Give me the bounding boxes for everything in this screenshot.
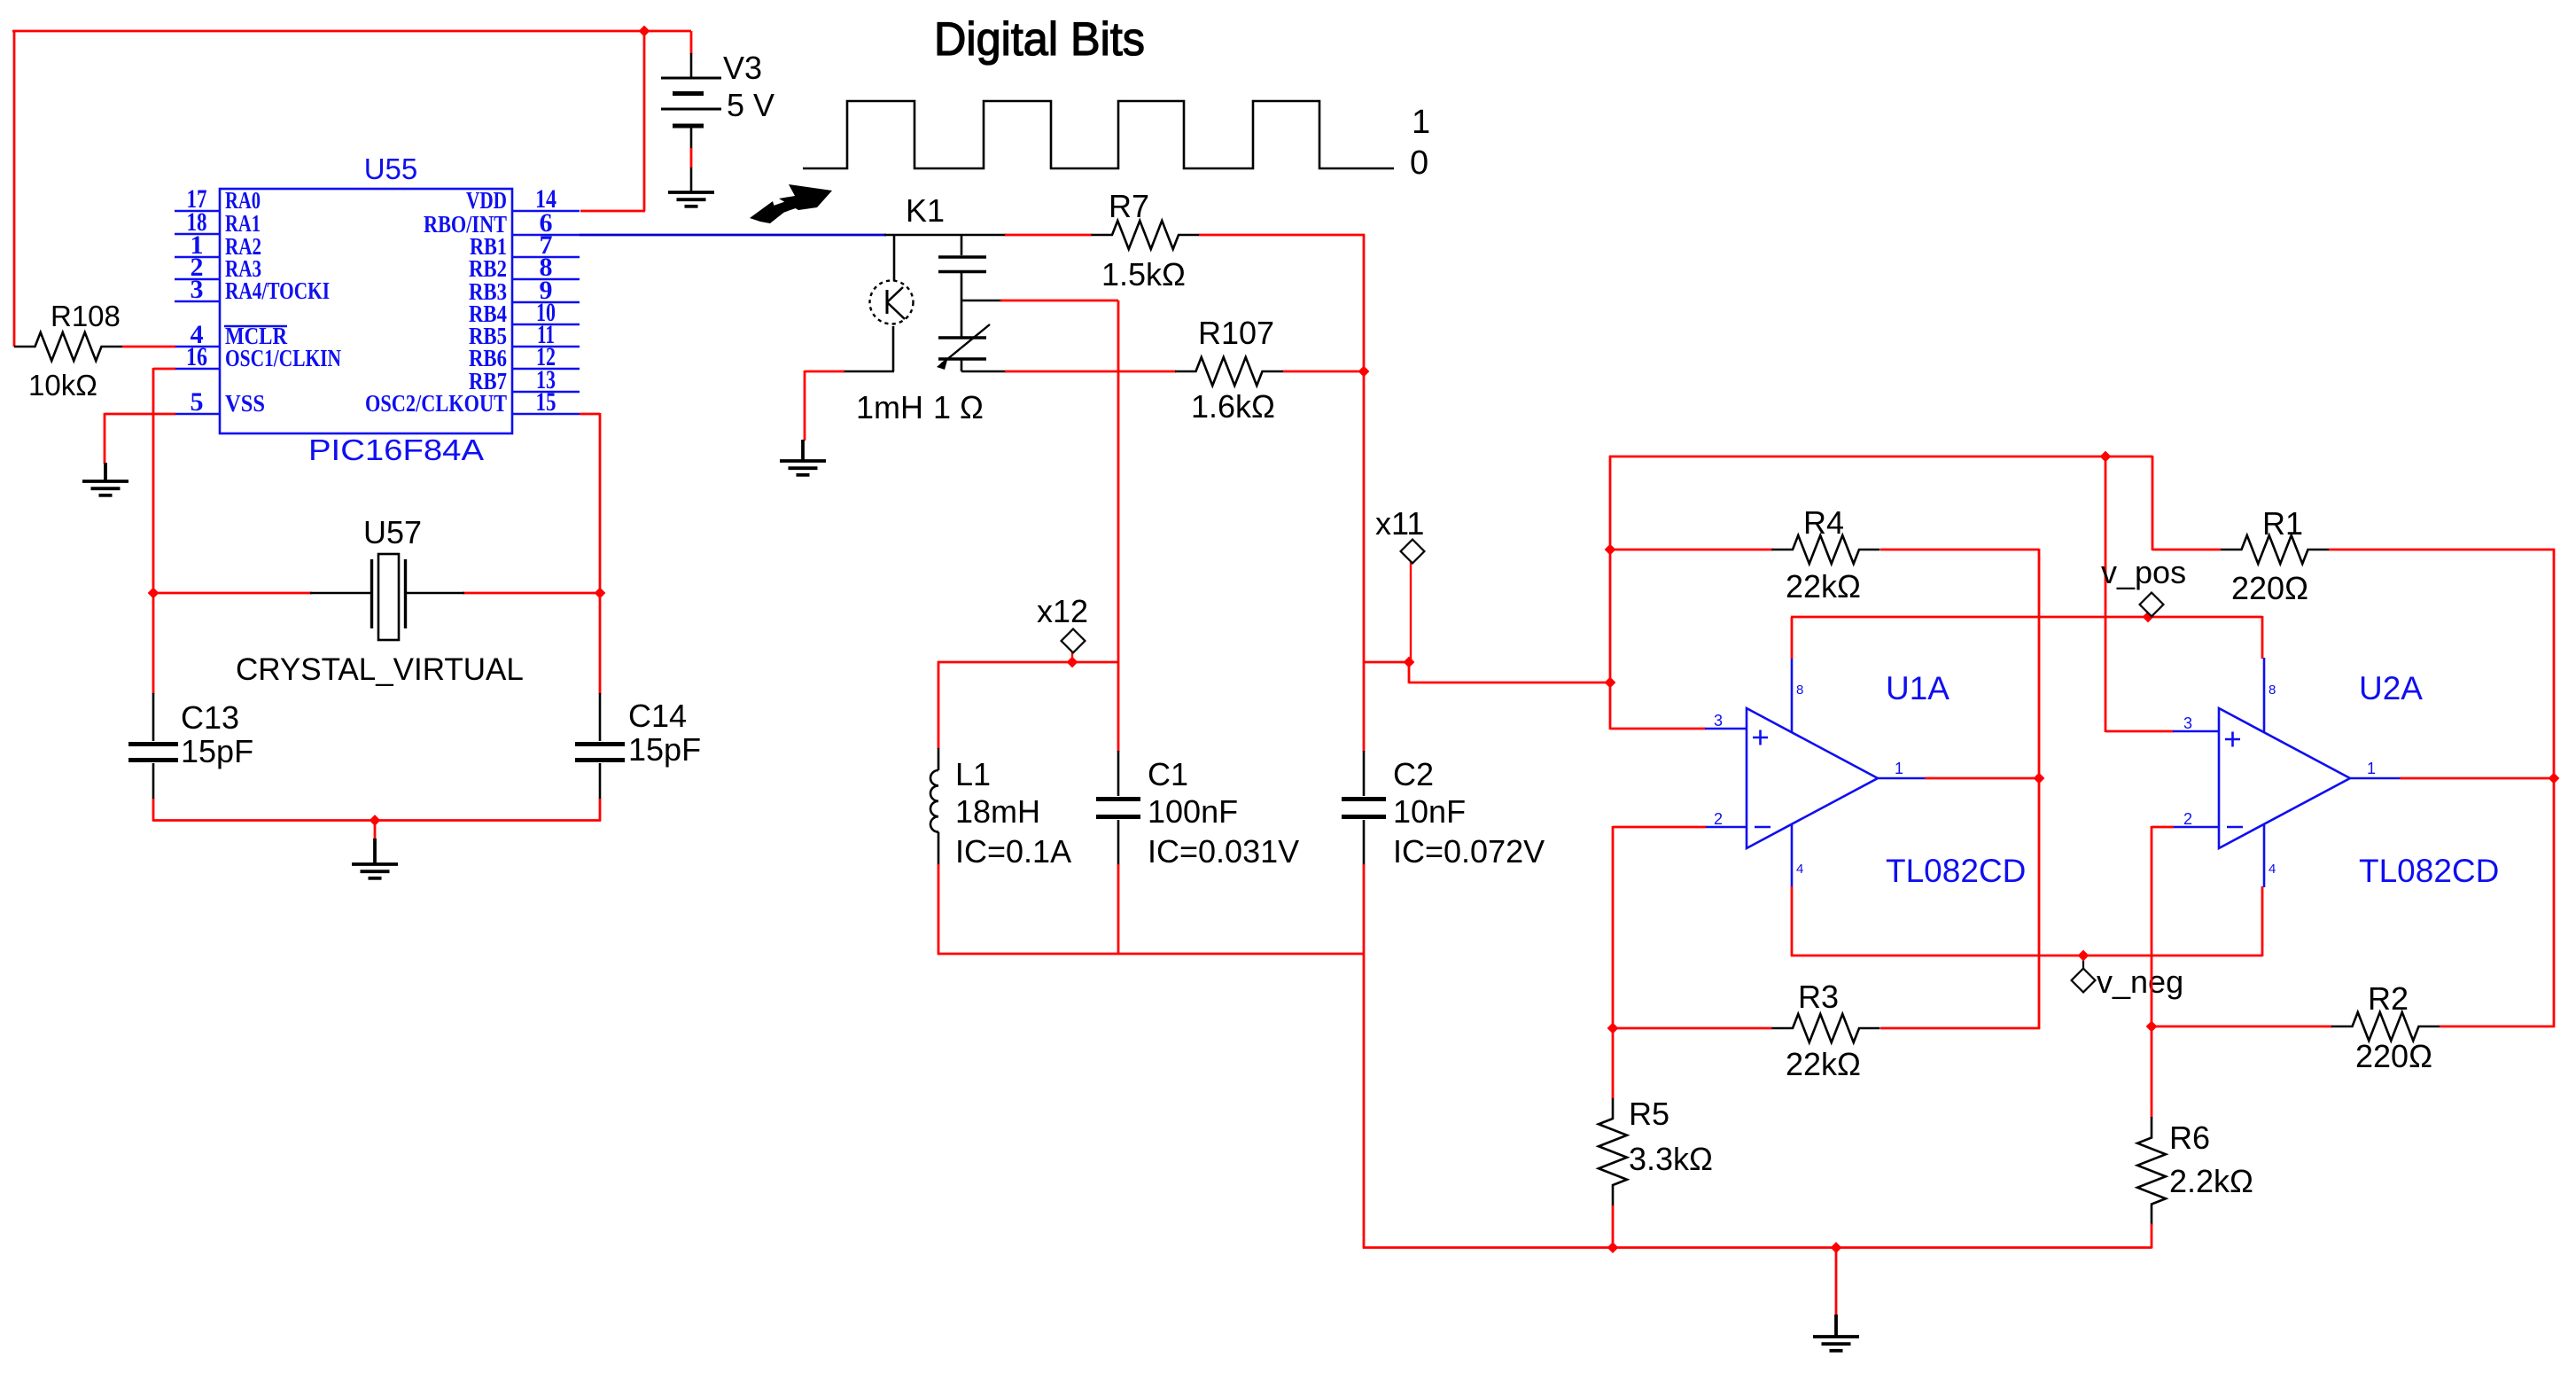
probe v_neg diamond bbox=[2072, 969, 2096, 993]
wire left edge down to R108 bbox=[13, 30, 16, 347]
svg-text:16: 16 bbox=[186, 342, 207, 371]
wire U1A vminus bbox=[1791, 886, 1794, 956]
svg-text:100nF: 100nF bbox=[1148, 793, 1238, 830]
svg-text:4: 4 bbox=[2269, 862, 2276, 877]
svg-text:220Ω: 220Ω bbox=[2355, 1038, 2432, 1074]
svg-text:1.5kΩ: 1.5kΩ bbox=[1101, 256, 1186, 293]
svg-text:22kΩ: 22kΩ bbox=[1786, 1046, 1861, 1082]
svg-text:1: 1 bbox=[1412, 104, 1430, 141]
svg-text:15pF: 15pF bbox=[628, 731, 701, 768]
wire C14 bottom bbox=[599, 799, 602, 821]
svg-text:R1: R1 bbox=[2262, 505, 2303, 542]
wire U1A output bbox=[1925, 777, 2040, 780]
svg-text:3: 3 bbox=[2183, 714, 2192, 732]
svg-text:5 V: 5 V bbox=[727, 87, 774, 123]
resistor R1 bbox=[2221, 535, 2329, 564]
wire RBO/INT blue bbox=[580, 234, 886, 237]
wire pin15 to crystal right column bbox=[580, 413, 600, 416]
wire pin5 VSS bbox=[105, 413, 175, 416]
svg-text:22kΩ: 22kΩ bbox=[1786, 568, 1861, 605]
resistor R4 bbox=[1772, 535, 1880, 564]
wire K1 coil to ground bbox=[805, 371, 844, 373]
svg-text:U55: U55 bbox=[364, 152, 418, 185]
wire R4 left bbox=[1609, 549, 1773, 551]
node R4 left bbox=[1605, 544, 1616, 556]
op-amp U2A bbox=[2173, 658, 2401, 887]
svg-text:IC=0.1A: IC=0.1A bbox=[955, 833, 1071, 870]
svg-text:3: 3 bbox=[191, 275, 204, 304]
wire K1 to R107 bbox=[1005, 371, 1176, 373]
wire to bottom ground bbox=[1835, 1248, 1838, 1316]
node crystal left bbox=[148, 588, 160, 599]
battery V3 bbox=[690, 31, 693, 54]
wire U2A output bbox=[2400, 777, 2555, 780]
wire R2 right bbox=[2440, 1026, 2555, 1028]
node x11 branch bbox=[1404, 657, 1415, 668]
capacitor C2 bbox=[1342, 751, 1386, 865]
svg-text:8: 8 bbox=[2269, 683, 2276, 698]
probe x11 diamond bbox=[1401, 540, 1425, 564]
pin 7 RB1 bbox=[512, 256, 580, 258]
svg-text:x11: x11 bbox=[1375, 505, 1424, 542]
wire K1 tap to C1 column bbox=[1000, 300, 1118, 302]
svg-text:220Ω: 220Ω bbox=[2231, 570, 2308, 606]
probe x12 tick bbox=[1071, 651, 1073, 663]
pin 12 RB6 bbox=[512, 368, 580, 370]
crystal U57 bbox=[310, 554, 464, 640]
node U2A output bbox=[2549, 773, 2560, 784]
wire U2A plus input bbox=[2105, 456, 2107, 732]
svg-text:x12: x12 bbox=[1037, 593, 1088, 629]
wire R3 right bbox=[1880, 1027, 2040, 1030]
wire branch to x11 bbox=[1364, 661, 1410, 664]
pin 14 VDD bbox=[512, 210, 580, 212]
wire R4 right to output bbox=[1880, 549, 2039, 551]
resistor R3 bbox=[1772, 1014, 1880, 1042]
node R5 rail bbox=[1607, 1242, 1619, 1253]
op U55 PIC16F84A box bbox=[220, 189, 512, 433]
ground bottom bbox=[1813, 1314, 1859, 1351]
ground under K1 bbox=[780, 440, 826, 475]
wire C2 bottom bbox=[1363, 864, 1366, 1249]
wire C13 bottom bbox=[152, 799, 155, 821]
pin 6 RBO/INT bbox=[512, 234, 580, 236]
capacitor C14 bbox=[575, 693, 625, 800]
wire R6 bottom lead bbox=[2151, 1224, 2153, 1249]
wire U1A minus input bbox=[1613, 826, 1706, 829]
wire input vertical bbox=[1609, 456, 1612, 729]
pin 10 RB4 bbox=[512, 324, 580, 325]
pin 1 RA2 bbox=[175, 256, 220, 258]
svg-text:15: 15 bbox=[536, 387, 556, 417]
svg-text:8: 8 bbox=[1796, 683, 1803, 698]
svg-text:CRYSTAL_VIRTUAL: CRYSTAL_VIRTUAL bbox=[236, 652, 524, 687]
svg-text:K1: K1 bbox=[906, 192, 945, 229]
node R107 junction bbox=[1358, 366, 1370, 378]
svg-text:OSC2/CLKOUT: OSC2/CLKOUT bbox=[365, 390, 507, 417]
pin 2 RA3 bbox=[175, 278, 220, 280]
probe v_pos diamond bbox=[2140, 593, 2164, 617]
wire down to ground bbox=[104, 413, 106, 464]
node ground tap bbox=[370, 815, 381, 826]
svg-text:TL082CD: TL082CD bbox=[2359, 853, 2499, 889]
wire vneg rail bbox=[1791, 955, 2262, 957]
svg-text:2.2kΩ: 2.2kΩ bbox=[2169, 1163, 2253, 1199]
probe v_neg tick bbox=[2082, 956, 2084, 971]
svg-text:C1: C1 bbox=[1148, 756, 1188, 792]
wire top rail corner to R1 bbox=[2152, 456, 2154, 550]
wire U2A minus input bbox=[2152, 826, 2174, 829]
svg-text:R7: R7 bbox=[1109, 188, 1149, 224]
svg-text:15pF: 15pF bbox=[181, 733, 253, 769]
wire L1 top bbox=[938, 661, 940, 749]
node crystal right bbox=[595, 588, 606, 599]
pin 16 OSC1/CLKIN bbox=[175, 368, 220, 370]
wire R108 to pin4 bbox=[122, 346, 175, 348]
wire crystal bottom rail bbox=[152, 819, 601, 822]
wire R7 right bbox=[1199, 234, 1365, 237]
node x12 bbox=[1067, 657, 1078, 668]
pin 11 RB5 bbox=[512, 346, 580, 347]
svg-text:v_neg: v_neg bbox=[2097, 963, 2183, 1000]
relay K1 bbox=[843, 235, 1007, 371]
probe x11 bbox=[1410, 562, 1412, 663]
probe x12 diamond bbox=[1062, 629, 1086, 653]
pin 8 RB2 bbox=[512, 278, 580, 280]
wire x12 row bbox=[938, 661, 1119, 664]
svg-text:OSC1/CLKIN: OSC1/CLKIN bbox=[225, 345, 341, 371]
wire tap to ground bbox=[374, 820, 377, 839]
svg-text:4: 4 bbox=[1796, 862, 1803, 877]
svg-text:U2A: U2A bbox=[2359, 670, 2423, 706]
pin 3 RA4/TOCKI bbox=[175, 300, 220, 302]
wire crystal row right bbox=[463, 592, 601, 595]
svg-text:R107: R107 bbox=[1198, 315, 1274, 351]
wire output feedback vertical bbox=[2038, 549, 2041, 1029]
svg-text:VDD: VDD bbox=[466, 187, 507, 214]
svg-text:IC=0.031V: IC=0.031V bbox=[1148, 833, 1299, 870]
pin 13 RB7 bbox=[512, 391, 580, 393]
node U2A plus branch bbox=[2100, 451, 2112, 463]
svg-text:IC=0.072V: IC=0.072V bbox=[1393, 833, 1545, 870]
node input tee bbox=[1605, 677, 1616, 689]
wire crystal row left bbox=[152, 592, 312, 595]
node v_pos tap bbox=[2143, 612, 2154, 623]
wire R5 bottom bbox=[1612, 1205, 1615, 1249]
resistor R108 bbox=[14, 332, 122, 361]
node R2 left bbox=[2146, 1021, 2158, 1033]
svg-text:R6: R6 bbox=[2169, 1119, 2210, 1156]
svg-text:1: 1 bbox=[2367, 760, 2376, 777]
wire bottom rail bbox=[1363, 1246, 2152, 1249]
wire R107 right bbox=[1283, 371, 1365, 373]
pin 9 RB3 bbox=[512, 301, 580, 303]
svg-text:R2: R2 bbox=[2368, 980, 2409, 1017]
svg-text:10kΩ: 10kΩ bbox=[28, 369, 97, 402]
svg-text:R108: R108 bbox=[51, 300, 121, 332]
wire mid rail L1 C1 C2 bbox=[938, 953, 1365, 956]
node ground tap bottom bbox=[1831, 1242, 1842, 1253]
wire main vertical R7/R107/C2 bbox=[1363, 234, 1366, 752]
pin 5 VSS bbox=[175, 413, 220, 415]
svg-text:0: 0 bbox=[1410, 144, 1428, 182]
svg-text:C2: C2 bbox=[1393, 756, 1434, 792]
svg-text:R5: R5 bbox=[1629, 1096, 1669, 1132]
wire top rail from R108 to V3 bbox=[12, 30, 691, 33]
svg-text:1 Ω: 1 Ω bbox=[933, 389, 984, 425]
svg-text:5: 5 bbox=[191, 387, 204, 417]
svg-text:TL082CD: TL082CD bbox=[1886, 853, 2026, 889]
resistor R107 bbox=[1175, 357, 1283, 386]
wire U1A vplus bbox=[1791, 617, 1794, 659]
ground under crystal bbox=[352, 839, 398, 878]
svg-text:v_pos: v_pos bbox=[2101, 554, 2186, 590]
capacitor C13 bbox=[128, 693, 178, 800]
pin 17 RA0 bbox=[175, 210, 220, 212]
svg-text:R3: R3 bbox=[1798, 979, 1839, 1015]
annotation arrow bbox=[750, 184, 832, 223]
svg-text:PIC16F84A: PIC16F84A bbox=[308, 433, 484, 466]
op-amp U1A bbox=[1705, 658, 1926, 887]
node v_neg tap bbox=[2078, 950, 2090, 962]
wire R3 left bbox=[1612, 1027, 1772, 1030]
node R3 left bbox=[1607, 1023, 1619, 1034]
wire R2 left bbox=[2151, 1026, 2332, 1028]
wire top rail bbox=[1609, 456, 2152, 458]
wire right edge vertical bbox=[2553, 549, 2556, 1027]
svg-text:3: 3 bbox=[1714, 712, 1723, 729]
svg-text:1mH: 1mH bbox=[856, 389, 923, 425]
svg-text:Digital Bits: Digital Bits bbox=[934, 13, 1145, 66]
capacitor C1 bbox=[1096, 751, 1140, 865]
wire R1 right bbox=[2329, 549, 2555, 551]
node junction top bbox=[639, 26, 650, 37]
wire U2A vplus bbox=[2261, 616, 2264, 659]
resistor R7 bbox=[1092, 221, 1200, 249]
wire vpos rail bbox=[1791, 616, 2262, 619]
wire to R7 bbox=[1005, 234, 1092, 237]
svg-text:1.6kΩ: 1.6kΩ bbox=[1191, 388, 1275, 425]
resistor R2 bbox=[2331, 1012, 2440, 1041]
digital waveform bbox=[803, 101, 1394, 168]
wire VDD pin14 branch bbox=[643, 31, 646, 211]
svg-text:18mH: 18mH bbox=[955, 793, 1040, 830]
ground under VSS bbox=[82, 463, 128, 495]
pin 4 MCLR bbox=[175, 346, 220, 347]
wire U2A vminus bbox=[2261, 886, 2264, 956]
svg-text:R4: R4 bbox=[1803, 504, 1844, 541]
svg-text:L1: L1 bbox=[955, 756, 991, 792]
pin 18 RA1 bbox=[175, 233, 220, 235]
svg-text:1: 1 bbox=[1895, 760, 1903, 777]
wire pin16 to crystal column bbox=[153, 368, 175, 371]
svg-text:3.3kΩ: 3.3kΩ bbox=[1629, 1141, 1713, 1177]
svg-text:2: 2 bbox=[1714, 810, 1723, 828]
svg-text:U1A: U1A bbox=[1886, 670, 1950, 706]
wire R5 top bbox=[1612, 1027, 1615, 1098]
svg-text:C14: C14 bbox=[628, 698, 687, 734]
wire L1 bottom bbox=[938, 864, 940, 955]
resistor R5 bbox=[1599, 1098, 1627, 1206]
svg-text:2: 2 bbox=[2183, 810, 2192, 828]
svg-text:U57: U57 bbox=[363, 514, 422, 550]
pin 15 OSC2/CLKOUT bbox=[512, 413, 580, 415]
svg-text:C13: C13 bbox=[181, 699, 239, 736]
wire C1 bottom bbox=[1117, 864, 1120, 955]
svg-text:RA4/TOCKI: RA4/TOCKI bbox=[225, 277, 330, 304]
svg-text:10nF: 10nF bbox=[1393, 793, 1466, 830]
ground under V3 bbox=[668, 192, 714, 207]
resistor R6 bbox=[2137, 1117, 2166, 1225]
node U1A output bbox=[2034, 773, 2045, 784]
inductor L1 bbox=[930, 748, 938, 865]
svg-text:VSS: VSS bbox=[225, 390, 265, 417]
svg-text:V3: V3 bbox=[723, 50, 762, 86]
